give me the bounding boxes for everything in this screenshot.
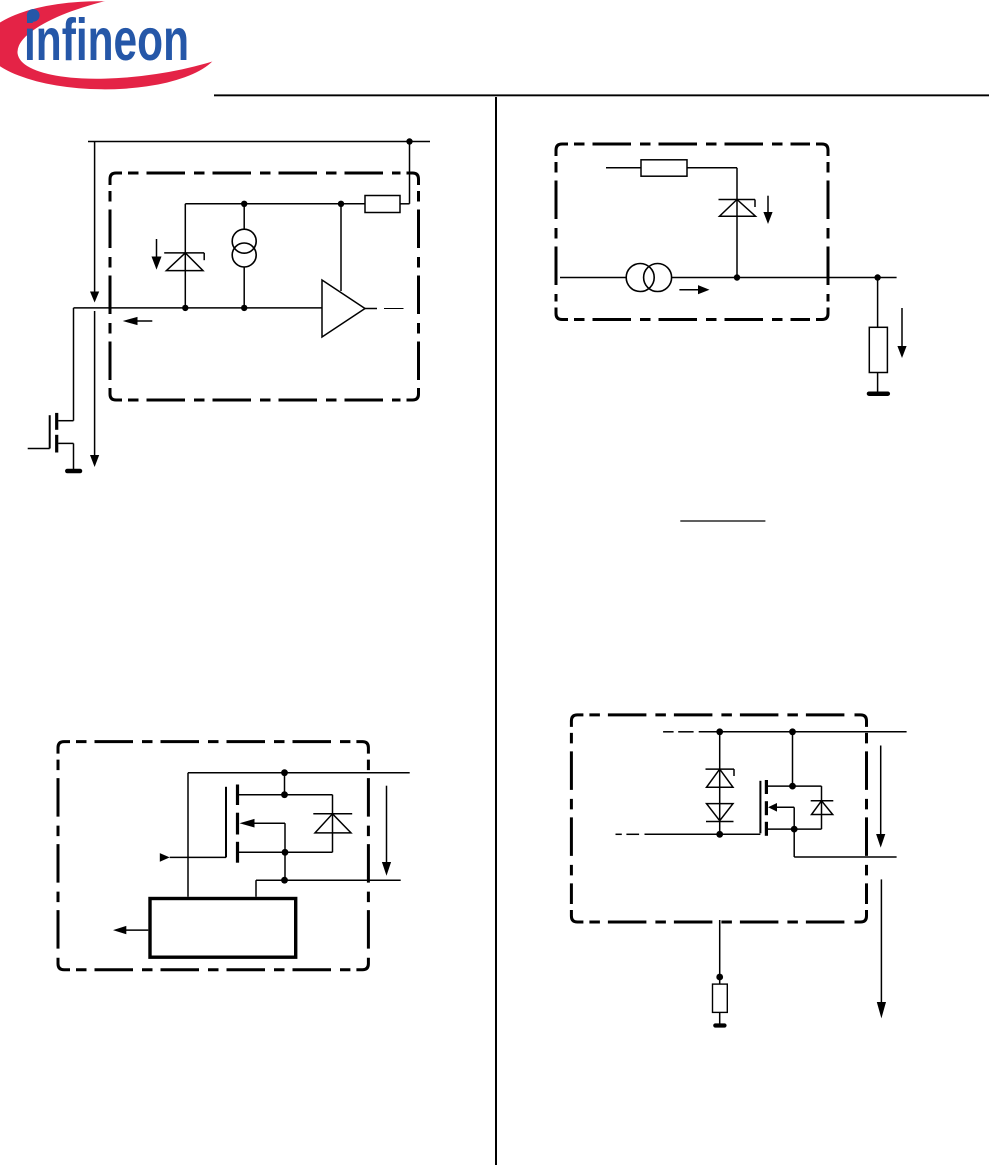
svg-text:infineon: infineon — [24, 7, 189, 73]
